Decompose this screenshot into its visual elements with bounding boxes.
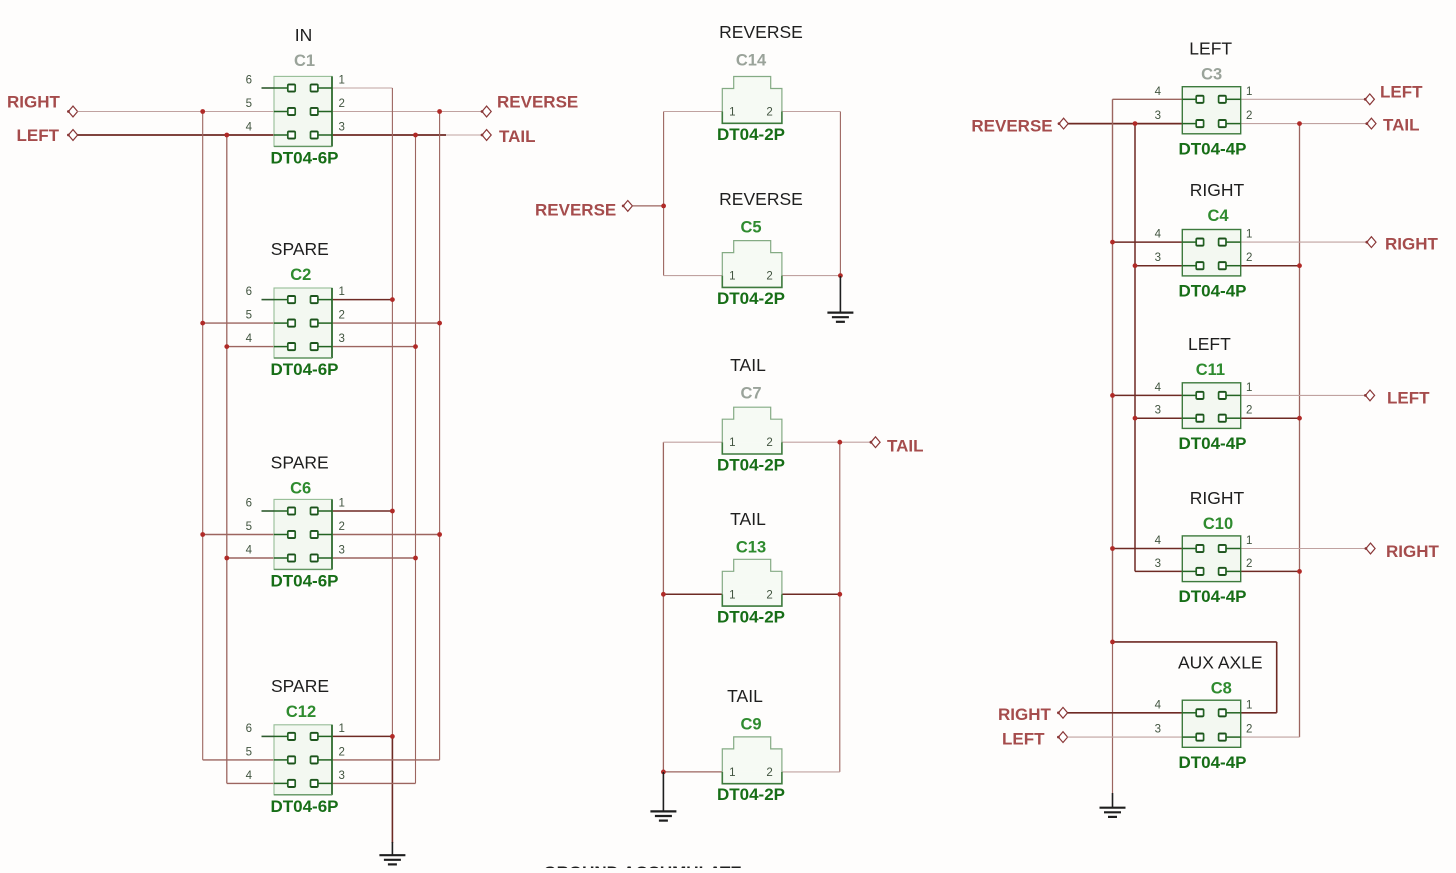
svg-text:C7: C7 (740, 385, 761, 403)
svg-text:5: 5 (246, 746, 252, 758)
svg-text:DT04-2P: DT04-2P (717, 125, 785, 144)
svg-text:3: 3 (339, 333, 345, 345)
junction C4 pin4 (1110, 240, 1115, 245)
svg-text:4: 4 (246, 545, 253, 557)
connector C1 (IN) DT04-6P (246, 25, 345, 167)
pin 6 of C6 (274, 510, 288, 512)
body C1 (274, 76, 332, 146)
svg-text:RIGHT: RIGHT (1190, 180, 1245, 200)
connector C3 (LEFT) DT04-4P (1155, 39, 1253, 159)
junction loop top / x1112.5 (1110, 640, 1115, 645)
svg-text:DT04-4P: DT04-4P (1178, 281, 1246, 300)
svg-text:2: 2 (766, 589, 772, 601)
pin 3 of C2 (317, 346, 332, 348)
svg-text:DT04-6P: DT04-6P (270, 360, 338, 379)
pin 5 of C12 (274, 759, 288, 761)
ground (left column, below C12) (379, 842, 405, 864)
pin 3 of C1 (317, 134, 332, 136)
svg-text:4: 4 (1155, 535, 1162, 547)
pin 4 of C3 (1182, 98, 1197, 100)
port LEFT (input, left) (17, 126, 78, 145)
svg-text:3: 3 (1155, 252, 1161, 264)
wire loop to C8 pin1 (1241, 712, 1277, 714)
junction C6 pin5 (200, 532, 205, 537)
svg-text:RIGHT: RIGHT (1385, 235, 1439, 254)
svg-text:C8: C8 (1211, 680, 1232, 698)
junction TAIL / x1299.5 (1297, 121, 1302, 126)
port REVERSE (right of C1) (481, 93, 579, 117)
pin 1 of C4 (1225, 241, 1240, 243)
wire C3 pin1 to LEFT port (1241, 98, 1366, 100)
junction C2 pin3 (413, 344, 418, 349)
svg-text:2: 2 (766, 437, 772, 449)
pin 4 of C2 (274, 346, 288, 348)
svg-text:4: 4 (1155, 86, 1162, 98)
pin 6 stub of C2 (262, 299, 275, 301)
wire C4 pin4 to bus (1113, 241, 1183, 243)
wire AUX AXLE loop top (1113, 641, 1277, 643)
wire C10 pin4 to bus (1113, 548, 1183, 550)
svg-text:1: 1 (339, 75, 345, 87)
svg-text:RIGHT: RIGHT (1190, 488, 1245, 508)
junction C10 pin4 (1110, 546, 1115, 551)
connector C11 (LEFT) DT04-4P (1155, 334, 1253, 453)
connector C2 (SPARE) DT04-6P (246, 239, 345, 379)
wire LEFT: port to C1 pin4 (78, 134, 274, 136)
junction C10 pin2 (1297, 569, 1302, 574)
wire C2 pin2 to bus (332, 322, 440, 324)
vertical wire REVERSE group left x663.6 (663, 112, 665, 276)
pin 2 of C3 (1225, 123, 1240, 125)
pin 2 of C8 (1225, 736, 1240, 738)
wire C12 pin1 to bus (332, 735, 392, 737)
wire C2 pin3 to bus (332, 346, 416, 348)
svg-text:4: 4 (1155, 382, 1162, 394)
port LEFT (right of C3) (1364, 83, 1423, 105)
body C12 (274, 725, 332, 795)
svg-text:C1: C1 (294, 52, 315, 70)
svg-text:6: 6 (246, 75, 252, 87)
pin 1 of C11 (1225, 394, 1240, 396)
svg-text:2: 2 (339, 746, 345, 758)
svg-text:1: 1 (729, 437, 735, 449)
vertical bus x1135 (REVERSE net) (1134, 124, 1136, 572)
svg-text:LEFT: LEFT (1380, 83, 1423, 102)
wire C11 pin2 to bus (1241, 417, 1300, 419)
ground (right column) (1100, 793, 1126, 817)
pin 4 of C8 (1182, 712, 1197, 714)
body C3 (1182, 87, 1240, 134)
svg-text:C9: C9 (740, 716, 761, 734)
wire C9 pin1 left (663, 771, 722, 773)
vertical bus x1112.5 (C3 pin4 net) (1112, 99, 1114, 642)
svg-text:REVERSE: REVERSE (535, 201, 616, 220)
junction RIGHT wire / bus (200, 109, 205, 114)
svg-text:C14: C14 (736, 52, 767, 70)
wire C6 pin1 to bus (332, 510, 392, 512)
svg-text:1: 1 (1246, 229, 1252, 241)
svg-text:TAIL: TAIL (730, 509, 766, 529)
wire C12 pin4 to bus (227, 782, 274, 784)
junction C11 pin2 (1297, 416, 1302, 421)
junction C11 pin4 (1110, 393, 1115, 398)
port RIGHT (input, left) (7, 93, 78, 117)
svg-text:TAIL: TAIL (730, 355, 766, 375)
pin 2 of C2 (317, 322, 332, 324)
svg-text:3: 3 (1155, 110, 1161, 122)
wire C13 pin1 left (663, 593, 722, 595)
svg-text:C10: C10 (1203, 515, 1233, 533)
wire REVERSE port to bus (632, 205, 663, 207)
pin 4 of C4 (1182, 241, 1197, 243)
pin 1 of C6 (317, 510, 332, 512)
junction C2 pin1 (390, 297, 395, 302)
body C10 (1182, 536, 1240, 582)
svg-text:TAIL: TAIL (499, 127, 536, 146)
svg-text:DT04-4P: DT04-4P (1178, 753, 1246, 772)
svg-text:DT04-2P: DT04-2P (717, 456, 785, 475)
junction REVERSE / x1135 (1133, 121, 1138, 126)
svg-text:LEFT: LEFT (1002, 730, 1045, 749)
svg-text:4: 4 (246, 122, 253, 134)
svg-text:6: 6 (246, 286, 252, 298)
connector C9 (TAIL) DT04-2P (717, 686, 785, 804)
svg-text:C6: C6 (290, 480, 311, 498)
svg-text:DT04-4P: DT04-4P (1178, 139, 1246, 158)
connector C4 (RIGHT) DT04-4P (1155, 180, 1253, 300)
pin 3 of C8 (1182, 736, 1197, 738)
vertical wire TAIL group left x663.4 (662, 442, 664, 772)
svg-text:C2: C2 (290, 266, 311, 284)
wire RIGHT: port to C1 pin5 (78, 111, 274, 113)
wire C4 pin3 to bus (1135, 265, 1182, 267)
pin 3 of C3 (1182, 123, 1197, 125)
svg-text:DT04-2P: DT04-2P (717, 785, 785, 804)
svg-text:2: 2 (1246, 252, 1252, 264)
wire C14 pin1 left (664, 111, 723, 113)
wire C6 pin5 to bus (203, 534, 274, 536)
port RIGHT (right of C10) (1365, 542, 1440, 561)
svg-text:1: 1 (1246, 535, 1252, 547)
svg-text:1: 1 (339, 498, 345, 510)
svg-text:C11: C11 (1196, 361, 1225, 379)
svg-text:GROUND ACCUMULATE: GROUND ACCUMULATE (543, 863, 741, 868)
svg-text:2: 2 (339, 521, 345, 533)
pin 5 of C1 (274, 111, 288, 113)
wire C3 pin2 to TAIL port (1241, 123, 1367, 125)
junction C7 pin2 (837, 440, 842, 445)
svg-text:1: 1 (1246, 382, 1252, 394)
svg-text:LEFT: LEFT (1189, 39, 1232, 59)
wire C2 pin4 to bus (227, 346, 274, 348)
pin 3 of C11 (1182, 417, 1197, 419)
svg-text:2: 2 (1246, 405, 1252, 417)
svg-text:2: 2 (1246, 110, 1252, 122)
svg-text:2: 2 (339, 310, 345, 322)
pin 6 of C12 (274, 735, 288, 737)
svg-text:LEFT: LEFT (17, 126, 60, 145)
wire C2 pin1 to bus (332, 299, 392, 301)
svg-text:C12: C12 (286, 703, 316, 721)
svg-text:1: 1 (339, 723, 345, 735)
wire LEFT port to C8 pin3 (1068, 736, 1183, 738)
wire C10 pin1 to RIGHT port (1241, 548, 1366, 550)
connector C8 (AUX AXLE) DT04-4P (1155, 653, 1263, 772)
junction C6 pin3 (413, 556, 418, 561)
svg-text:3: 3 (1155, 724, 1161, 736)
pin 3 of C10 (1182, 570, 1197, 572)
junction C4 pin3 (1133, 263, 1138, 268)
wire C5 pin1 left (664, 275, 723, 277)
svg-text:2: 2 (1246, 724, 1252, 736)
svg-text:3: 3 (339, 122, 345, 134)
svg-text:5: 5 (246, 521, 252, 533)
wire C3 pin4 to left bus corner (1113, 98, 1183, 100)
junction C2 pin2 (437, 321, 442, 326)
junction C9 pin1 / ground (661, 770, 666, 775)
body C7 (722, 407, 782, 442)
connector C7 (TAIL) DT04-2P (717, 355, 785, 475)
wire C9 pin2 right (782, 771, 840, 773)
svg-text:1: 1 (729, 107, 735, 119)
svg-text:3: 3 (339, 545, 345, 557)
svg-text:RIGHT: RIGHT (7, 93, 61, 112)
svg-text:4: 4 (246, 333, 253, 345)
port LEFT (right of C11) (1364, 389, 1430, 408)
svg-text:SPARE: SPARE (271, 453, 329, 473)
pin 6 of C1 (274, 87, 288, 89)
svg-text:AUX AXLE: AUX AXLE (1178, 653, 1263, 673)
wire C13 pin2 right (782, 593, 840, 595)
svg-text:SPARE: SPARE (271, 239, 329, 259)
junction C13 pin2 (837, 592, 842, 597)
pin 2 of C12 (317, 759, 332, 761)
svg-text:4: 4 (1155, 699, 1162, 711)
wire C12 pin3 to bus (332, 782, 416, 784)
wire AUX AXLE loop vertical (1276, 642, 1278, 713)
vertical bus RIGHT net x202.7 (202, 112, 204, 760)
junction REVERSE wire / bus (437, 109, 442, 114)
wire C1 pin2 to REVERSE port (332, 111, 482, 113)
junction C2 pin4 (224, 344, 229, 349)
wire C4 pin1 to RIGHT port (1241, 241, 1367, 243)
body C5 (722, 241, 782, 276)
svg-text:2: 2 (766, 107, 772, 119)
svg-text:5: 5 (246, 98, 252, 110)
body C2 (274, 288, 332, 358)
port REVERSE (right column) (971, 117, 1068, 136)
svg-text:TAIL: TAIL (887, 437, 924, 456)
wire C14 pin2 right (782, 111, 841, 113)
svg-text:DT04-6P: DT04-6P (270, 571, 338, 590)
port REVERSE (middle) (535, 201, 632, 220)
svg-text:6: 6 (246, 498, 252, 510)
port TAIL (right of C3) (1365, 116, 1419, 135)
connector C6 (SPARE) DT04-6P (246, 453, 345, 591)
svg-text:1: 1 (729, 767, 735, 779)
body C9 (722, 737, 782, 772)
connector C13 (TAIL) DT04-2P (717, 509, 785, 627)
junction C12 pin1 (390, 734, 395, 739)
pin 1 of C3 (1225, 98, 1240, 100)
vertical bus x1299.5 (TAIL net) (1299, 124, 1301, 738)
svg-text:DT04-2P: DT04-2P (717, 608, 785, 627)
pin 6 stub of C12 (262, 735, 275, 737)
pin 6 stub of C6 (262, 510, 275, 512)
pin 1 of C12 (317, 735, 332, 737)
svg-text:2: 2 (766, 271, 772, 283)
port RIGHT (right of C4) (1365, 235, 1438, 254)
junction C2 pin5 (200, 321, 205, 326)
wire C4 pin2 to bus (1241, 265, 1300, 267)
port LEFT (left of C8) (1002, 730, 1068, 749)
pin 2 of C1 (317, 111, 332, 113)
junction C5 pin2 / ground (838, 273, 843, 278)
wire C6 pin3 to bus (332, 557, 416, 559)
port TAIL (right of C1) (481, 127, 536, 146)
svg-text:LEFT: LEFT (1188, 334, 1231, 354)
wire C11 pin3 to bus (1135, 417, 1182, 419)
junction C13 pin1 (661, 592, 666, 597)
svg-text:REVERSE: REVERSE (971, 117, 1052, 136)
svg-text:4: 4 (1155, 229, 1162, 241)
svg-text:IN: IN (295, 25, 313, 45)
svg-text:TAIL: TAIL (727, 686, 763, 706)
pin 2 of C6 (317, 534, 332, 536)
vertical bus LEFT net x226.8 (226, 135, 228, 783)
svg-text:3: 3 (339, 770, 345, 782)
svg-text:1: 1 (1246, 86, 1252, 98)
wire C12 pin5 to bus (203, 759, 274, 761)
connector C14 (REVERSE) DT04-2P (717, 22, 803, 144)
body C14 (722, 77, 782, 112)
connector C10 (RIGHT) DT04-4P (1155, 488, 1253, 606)
junction LEFT wire / bus (224, 133, 229, 138)
wire C12 pin2 to bus (332, 759, 440, 761)
vertical bus REVERSE net x439.6 (439, 112, 441, 760)
pin 4 of C12 (274, 782, 288, 784)
pin 2 of C10 (1225, 570, 1240, 572)
svg-text:3: 3 (1155, 405, 1161, 417)
svg-text:DT04-6P: DT04-6P (270, 148, 338, 167)
connector C5 (REVERSE) DT04-2P (717, 189, 803, 308)
vertical wire TAIL group right x839.8 (839, 442, 841, 772)
pin 1 of C10 (1225, 548, 1240, 550)
body C13 (722, 559, 782, 594)
wire C7 pin1 left (663, 441, 722, 443)
wire C8 pin2 to bus corner (1241, 736, 1300, 738)
wire REVERSE port to C3 pin3 (1068, 123, 1182, 125)
wire RIGHT port to C8 pin4 (1068, 712, 1183, 714)
vertical wire REVERSE group right x840.4 (839, 112, 841, 276)
svg-text:C5: C5 (740, 219, 761, 237)
wire C6 pin4 to bus (227, 557, 274, 559)
svg-text:2: 2 (1246, 558, 1252, 570)
svg-text:DT04-4P: DT04-4P (1178, 587, 1246, 606)
wire C10 pin2 to bus (1241, 570, 1300, 572)
wire C10 pin3 to bus corner (1135, 570, 1182, 572)
ground (below C9) (650, 772, 676, 821)
ground (below C5) (827, 276, 853, 322)
pin 4 of C11 (1182, 394, 1197, 396)
body C4 (1182, 230, 1240, 276)
pin 4 of C1 (274, 134, 288, 136)
body C11 (1182, 383, 1240, 429)
svg-text:1: 1 (1246, 699, 1252, 711)
svg-text:C3: C3 (1201, 66, 1222, 84)
pin 1 of C1 (317, 87, 332, 89)
connector C12 (SPARE) DT04-6P (246, 676, 345, 816)
vertical bus pin1/ground net x392.4 (391, 88, 393, 736)
svg-text:1: 1 (729, 589, 735, 601)
pin 3 of C12 (317, 782, 332, 784)
pin 6 of C2 (274, 299, 288, 301)
junction REVERSE middle (661, 204, 666, 209)
svg-text:1: 1 (729, 271, 735, 283)
vertical bus TAIL net x415.5 (415, 135, 417, 783)
wire C6 pin2 to bus (332, 534, 440, 536)
pin 3 of C4 (1182, 265, 1197, 267)
wire C1 pin1 to vertical bus (332, 87, 392, 89)
svg-text:2: 2 (339, 98, 345, 110)
wire C1 pin3 to TAIL port (332, 134, 446, 136)
svg-text:RIGHT: RIGHT (1386, 542, 1440, 561)
junction C6 pin1 (390, 509, 395, 514)
pin 1 of C8 (1225, 712, 1240, 714)
svg-text:4: 4 (246, 770, 253, 782)
pin 3 of C6 (317, 557, 332, 559)
pin 4 of C6 (274, 557, 288, 559)
junction TAIL wire / bus (413, 133, 418, 138)
svg-text:C4: C4 (1207, 207, 1229, 225)
junction C11 pin3 (1133, 416, 1138, 421)
junction C6 pin4 (224, 556, 229, 561)
svg-text:REVERSE: REVERSE (719, 22, 803, 42)
svg-text:SPARE: SPARE (271, 676, 329, 696)
svg-text:LEFT: LEFT (1387, 389, 1430, 408)
wire C11 pin1 to LEFT port (1241, 394, 1366, 396)
wire C2 pin5 to bus (203, 322, 274, 324)
pin 4 of C10 (1182, 548, 1197, 550)
pin 2 of C11 (1225, 417, 1240, 419)
pin 2 of C4 (1225, 265, 1240, 267)
body C8 (1182, 700, 1240, 747)
port RIGHT (left of C8) (998, 705, 1068, 724)
svg-text:DT04-6P: DT04-6P (270, 797, 338, 816)
svg-text:TAIL: TAIL (1383, 116, 1420, 135)
wire C5 pin2 right (782, 275, 841, 277)
wire C7 pin2 to TAIL port (782, 441, 871, 443)
svg-text:5: 5 (246, 310, 252, 322)
pin 6 stub of C1 (262, 87, 275, 89)
svg-text:RIGHT: RIGHT (998, 705, 1052, 724)
port TAIL (middle) (870, 437, 924, 456)
svg-text:REVERSE: REVERSE (497, 93, 578, 112)
wire C11 pin4 to bus (1113, 394, 1183, 396)
body C6 (274, 499, 332, 569)
svg-text:6: 6 (246, 723, 252, 735)
junction C6 pin2 (437, 532, 442, 537)
svg-text:1: 1 (339, 286, 345, 298)
svg-text:3: 3 (1155, 558, 1161, 570)
svg-text:DT04-4P: DT04-4P (1178, 434, 1246, 453)
svg-text:DT04-2P: DT04-2P (717, 289, 785, 308)
junction C4 pin2 (1297, 263, 1302, 268)
pin 5 of C6 (274, 534, 288, 536)
svg-text:2: 2 (766, 767, 772, 779)
pin 5 of C2 (274, 322, 288, 324)
svg-text:C13: C13 (736, 539, 766, 557)
